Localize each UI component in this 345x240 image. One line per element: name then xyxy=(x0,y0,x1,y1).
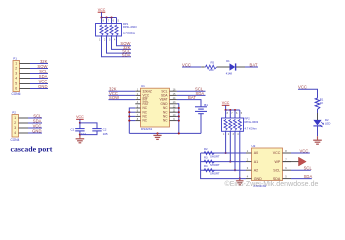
resistor R4 xyxy=(203,169,214,172)
junction dots on RP1 VCC rail xyxy=(100,16,102,18)
wire CON6 VCC xyxy=(30,83,48,85)
svg-text:105: 105 xyxy=(103,132,108,136)
svg-text:2: 2 xyxy=(14,121,16,125)
svg-text:U1: U1 xyxy=(141,84,145,88)
svg-text:SQW: SQW xyxy=(109,95,119,100)
svg-text:A1: A1 xyxy=(254,160,258,164)
wire C1 to ground xyxy=(79,131,81,136)
svg-text:R1: R1 xyxy=(320,97,324,101)
wire RP2 VCC rail xyxy=(226,109,240,111)
pin lead CON4 pin 4 xyxy=(19,132,29,134)
wire RP1 pin1 to SDA xyxy=(102,36,132,57)
svg-text:3: 3 xyxy=(14,126,16,130)
capacitor C1 xyxy=(75,128,84,130)
wire A1 row xyxy=(201,161,246,163)
wire R1 to LED xyxy=(317,109,319,113)
svg-text:CON6: CON6 xyxy=(12,92,21,96)
pin lead CON6 pin 6 xyxy=(20,88,31,90)
wire CON6 SDA xyxy=(30,78,48,80)
svg-text:RP4L-0603: RP4L-0603 xyxy=(245,120,259,124)
svg-text:4: 4 xyxy=(14,131,16,135)
pin lead R5 left xyxy=(201,66,205,68)
wire SCL from U1 pin16 xyxy=(177,90,206,92)
svg-text:NC: NC xyxy=(163,119,168,123)
resistor pack RP2 body xyxy=(222,118,244,131)
svg-text:R4: R4 xyxy=(204,164,208,168)
svg-text:WP: WP xyxy=(275,160,281,164)
svg-text:VCC: VCC xyxy=(76,115,84,119)
wire VCC to R1 xyxy=(298,89,318,97)
wire C2 branch bottom xyxy=(80,131,97,135)
svg-text:SDA: SDA xyxy=(304,174,313,179)
U1 pin leads left xyxy=(135,90,140,92)
U1 pin leads right xyxy=(170,90,177,92)
wire BAT from U1 pin14 to battery xyxy=(177,100,201,107)
wire U1 bottom ground rail xyxy=(129,132,201,134)
svg-text:U2: U2 xyxy=(252,144,256,148)
wire CON6 SQW xyxy=(30,68,48,70)
svg-text:1: 1 xyxy=(15,62,17,66)
wire U1 left NC bus xyxy=(129,108,135,133)
wire U2 SCL xyxy=(291,169,311,171)
junction dots right bus xyxy=(178,107,180,109)
pin lead CON6 pin 2 xyxy=(20,68,31,70)
wire VCC to C1 xyxy=(79,123,81,129)
wire U2 SDA xyxy=(291,178,312,180)
resistor R2 xyxy=(203,151,214,154)
wire C2 branch top xyxy=(80,123,97,129)
wire VCC to U1 pin2 xyxy=(109,94,136,96)
svg-text:D1: D1 xyxy=(226,59,230,63)
pin lead CON4 pin 2 xyxy=(19,122,29,124)
battery B1 xyxy=(195,106,207,108)
pin lead R5 to D1 xyxy=(217,66,230,68)
U2 pin leads right xyxy=(283,152,292,154)
wire RP1 pin6 drop xyxy=(111,18,113,24)
wire RP1 pin3 to 32K xyxy=(112,36,132,49)
wire CON6 SCL xyxy=(30,73,48,75)
svg-text:LED: LED xyxy=(325,121,330,125)
svg-text:VCC: VCC xyxy=(98,8,106,12)
wire RP2 pin1 to A0 xyxy=(225,131,227,153)
junction dot C1 bottom xyxy=(79,134,81,136)
wire RP2 pin2 to A1 xyxy=(229,131,231,161)
diode D1 1N4148 xyxy=(230,63,236,70)
ground (C1/C2) xyxy=(79,135,81,139)
svg-text:SHORT: SHORT xyxy=(210,154,220,158)
svg-text:R5: R5 xyxy=(211,61,215,65)
wire U2 WP stub xyxy=(283,161,299,163)
svg-text:P1: P1 xyxy=(13,57,17,61)
wire battery to rail xyxy=(200,114,202,134)
wire RP1 pin4 to SQW xyxy=(117,36,132,46)
svg-text:P2: P2 xyxy=(12,111,16,115)
pin lead CON6 pin 3 xyxy=(20,73,31,75)
wire RP2 pin4 to GND net xyxy=(239,131,241,178)
svg-text:4.7 KOhm: 4.7 KOhm xyxy=(245,127,258,131)
svg-text:©Eins-Zwei-Mik.denwdose.de: ©Eins-Zwei-Mik.denwdose.de xyxy=(225,180,319,188)
svg-text:R2: R2 xyxy=(204,147,208,151)
svg-text:DS3231: DS3231 xyxy=(141,127,152,131)
junction dots left NC bus xyxy=(128,111,130,113)
wire RP2 pin6 drop xyxy=(234,110,236,118)
wire U1 right GND/NC bus xyxy=(177,104,179,134)
svg-text:2: 2 xyxy=(15,67,17,71)
wire CON4 SCL xyxy=(28,117,42,119)
pin lead LED top xyxy=(317,113,319,120)
wire CON4 VCC xyxy=(28,127,42,129)
wire VCC rail to RP1 xyxy=(102,17,117,19)
resistor R1 xyxy=(315,97,320,109)
wire SDA from U1 pin15 xyxy=(177,94,206,96)
watermark text xyxy=(225,180,319,188)
port arrow WP xyxy=(299,157,307,166)
wire A0 row xyxy=(201,152,246,154)
svg-text:5: 5 xyxy=(15,82,17,86)
resistor pack RP1 body xyxy=(96,24,122,37)
pin lead D1 right xyxy=(236,66,245,68)
pin lead CON6 pin 1 xyxy=(20,63,31,65)
IC U2 AT24C32 body xyxy=(252,148,283,181)
svg-text:CON4: CON4 xyxy=(11,138,20,142)
svg-text:SDA: SDA xyxy=(122,52,131,57)
capacitor C2 xyxy=(92,128,101,130)
junction dot rail-right-bus xyxy=(178,132,180,134)
pin lead CON6 pin 4 xyxy=(20,78,31,80)
ground (LED) xyxy=(317,136,319,140)
svg-text:GND: GND xyxy=(38,84,47,89)
svg-text:1K: 1K xyxy=(320,101,324,105)
wire CON4 SDA xyxy=(28,122,42,124)
svg-text:104: 104 xyxy=(81,132,86,136)
svg-text:BAT: BAT xyxy=(188,95,196,100)
junction dot A2 xyxy=(234,169,236,171)
resistor R3 xyxy=(203,160,214,163)
wire LED to ground xyxy=(317,126,319,136)
svg-text:RP4L-0603: RP4L-0603 xyxy=(123,25,137,29)
svg-text:200: 200 xyxy=(209,68,214,72)
wire RP1 pin7 drop xyxy=(106,18,108,24)
svg-text:SCL: SCL xyxy=(304,166,313,171)
svg-text:RP2: RP2 xyxy=(245,117,251,121)
svg-text:6: 6 xyxy=(15,87,17,91)
junction dot C1 top xyxy=(79,122,81,124)
svg-text:1: 1 xyxy=(14,116,16,120)
wire CON6 GND xyxy=(30,88,48,90)
wire short-resistor ground bus xyxy=(201,153,246,179)
wire D1 to BAT xyxy=(245,66,258,68)
svg-text:SDA: SDA xyxy=(196,91,205,96)
svg-text:SHORT: SHORT xyxy=(210,172,220,176)
svg-text:SCL: SCL xyxy=(273,168,280,172)
svg-text:RP1: RP1 xyxy=(123,22,129,26)
wire RP1 pin8 drop xyxy=(101,18,103,24)
svg-text:A0: A0 xyxy=(254,151,258,155)
wire RP1 pin5 drop xyxy=(116,18,118,24)
pin lead CON4 pin 3 xyxy=(19,127,29,129)
IC U1 DS3231 body xyxy=(141,88,170,127)
connector P2 CON4 body xyxy=(12,115,19,138)
svg-text:C1: C1 xyxy=(70,128,74,132)
wire RP2 pin5 drop xyxy=(239,110,241,118)
svg-text:3: 3 xyxy=(15,72,17,76)
wire RP2 pin7 drop xyxy=(229,110,231,118)
svg-text:BAT: BAT xyxy=(250,62,258,67)
wire RP2 pin8 drop xyxy=(225,110,227,118)
resistor R5 xyxy=(205,65,217,69)
wire CON6 32K xyxy=(30,63,48,65)
wire U2 VCC xyxy=(291,152,310,154)
wire RP1 pin2 to SCL xyxy=(107,36,132,53)
svg-text:D2: D2 xyxy=(325,118,329,122)
wire A2 row xyxy=(201,169,246,171)
svg-text:VCC: VCC xyxy=(300,149,309,154)
junction dot rail-ground xyxy=(156,132,158,134)
svg-text:VCC: VCC xyxy=(222,101,230,105)
pin lead CON4 pin 1 xyxy=(19,117,29,119)
svg-text:4148: 4148 xyxy=(226,71,233,75)
wire 32K to U1 pin1 xyxy=(109,90,136,92)
wire RP2 pin3 to A2 xyxy=(234,131,236,170)
svg-text:4: 4 xyxy=(15,77,17,81)
wire CON4 GND xyxy=(28,132,42,134)
junction dots RP2 rail xyxy=(225,109,227,111)
svg-text:GND: GND xyxy=(32,129,41,134)
svg-text:SHORT: SHORT xyxy=(210,163,220,167)
svg-text:VCC: VCC xyxy=(273,151,281,155)
LED D2 xyxy=(313,120,321,126)
svg-text:A2: A2 xyxy=(254,168,258,172)
svg-text:B1: B1 xyxy=(204,103,208,107)
svg-text:NC: NC xyxy=(143,119,148,123)
ground (U2 pin4) xyxy=(239,179,241,181)
U2 pin leads left xyxy=(246,152,252,154)
pin lead CON6 pin 5 xyxy=(20,83,31,85)
svg-text:4.7 KOhm: 4.7 KOhm xyxy=(123,31,136,35)
wire SQW to U1 pin3 xyxy=(109,99,136,101)
svg-text:cascade port: cascade port xyxy=(11,145,53,154)
junction dot A1 xyxy=(229,161,231,163)
junction dot GND net xyxy=(239,178,241,180)
junction dot A0 xyxy=(225,152,227,154)
connector P1 CON6 body xyxy=(13,61,20,92)
svg-text:R3: R3 xyxy=(204,156,208,160)
ground (U1) xyxy=(157,133,159,135)
wire VCC to R5 xyxy=(182,66,201,68)
